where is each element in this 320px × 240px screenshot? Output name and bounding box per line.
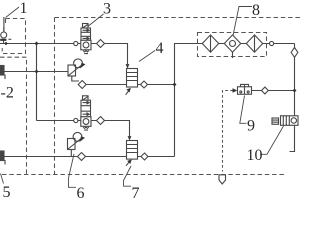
svg-text:8: 8 (252, 2, 260, 19)
svg-text:10: 10 (247, 147, 263, 164)
svg-text:6: 6 (77, 185, 85, 200)
svg-text:3: 3 (103, 0, 111, 17)
svg-text:-2: -2 (1, 85, 14, 102)
svg-text:1: 1 (20, 0, 28, 17)
svg-text:7: 7 (132, 185, 140, 200)
svg-text:5: 5 (3, 184, 11, 200)
svg-text:4: 4 (156, 40, 164, 57)
svg-text:9: 9 (247, 118, 255, 135)
